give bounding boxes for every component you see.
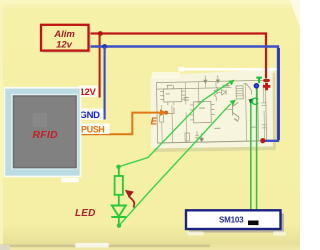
diode D1 [219, 89, 227, 95]
red arrow head [125, 190, 134, 198]
arrowhead B [230, 100, 236, 106]
green junction dot [249, 99, 253, 103]
RFID inner light line [11, 94, 78, 170]
white streak bottom left [75, 243, 109, 248]
white patch top of paper [152, 72, 180, 78]
capacitor C3 [195, 131, 199, 142]
svg-text:SM103: SM103 [219, 215, 244, 224]
blue wire from Alim around right [89, 47, 278, 141]
blue wire down to GND [103, 47, 105, 120]
label REL [222, 85, 229, 87]
schematic paper [151, 70, 274, 149]
GND label chip [79, 109, 104, 121]
SM103 black mark [248, 221, 259, 226]
orange arrowhead [160, 109, 167, 116]
tiny text smudges [165, 84, 257, 130]
white streak below SM103 right [273, 232, 286, 236]
Alim 12v box [41, 25, 89, 51]
white streak below RFID [61, 178, 79, 183]
relay K1 coil [236, 86, 243, 99]
red dot terminal minus [260, 138, 265, 143]
IC U1 pins [160, 85, 185, 106]
orange wire PUSH to E [80, 113, 161, 135]
transistor base wire [226, 109, 232, 111]
LED branch: top node [116, 165, 120, 169]
svg-text:E: E [151, 117, 158, 128]
circuit border [156, 80, 266, 143]
Alim 12v box shadow [43, 27, 91, 53]
red wire down to 12V [99, 34, 101, 98]
relay contact [243, 84, 251, 95]
svg-text:12V: 12V [80, 87, 97, 98]
green wire arrow A to relay [119, 82, 232, 167]
arrowhead A [228, 80, 234, 86]
RFID cyan frame [5, 89, 80, 176]
left edge light band [0, 0, 3, 250]
RFID gray panel [13, 95, 77, 168]
right verticals [245, 83, 264, 141]
LED cathode bar [111, 216, 126, 218]
blue junction node [102, 44, 107, 49]
resistor R1 left [160, 113, 164, 122]
resistor R4 bottom [185, 133, 190, 141]
wire node to resistor [118, 167, 120, 176]
schematic paper shadow [154, 73, 276, 152]
T label [256, 78, 262, 83]
PUSH label chip [79, 124, 110, 135]
white blob left end [179, 67, 184, 72]
RFID outer white edge [4, 87, 82, 178]
top rail [157, 88, 232, 90]
ground symbol [199, 133, 203, 142]
RFID panel inner shade [14, 96, 76, 167]
green vertical wire to SM103 left [250, 101, 252, 211]
wire LED to bottom node [118, 217, 120, 226]
white streak above schematic [180, 68, 278, 71]
capacitor C1 [184, 97, 189, 100]
orange tip circle [164, 111, 168, 115]
green vertical wire to SM103 right [256, 88, 258, 210]
transistor Q1 [232, 102, 238, 120]
svg-text:GND: GND [80, 110, 101, 121]
down arrow symbol [204, 75, 220, 83]
red terminal bar [263, 79, 270, 82]
wire top center [198, 82, 216, 104]
SM103 box shadow [189, 214, 284, 233]
svg-text:12v: 12v [56, 40, 73, 51]
IC U2 [193, 101, 211, 122]
IC U2 pins [190, 104, 215, 120]
bottom node [117, 223, 121, 227]
wire resistor to LED [118, 195, 120, 205]
svg-text:Alim: Alim [53, 29, 75, 40]
+ symbol [263, 83, 270, 90]
wire E input [166, 107, 174, 113]
red junction node [98, 31, 103, 36]
svg-text:C: C [251, 96, 259, 108]
resistor R-led [115, 176, 123, 195]
blue right edge thick [278, 48, 280, 140]
red wire from Alim to + [89, 34, 266, 79]
bottom-left corner smudge [0, 245, 10, 250]
red curved annotation arrow at LED [129, 196, 135, 208]
svg-text:LED: LED [75, 208, 96, 219]
SM103 box [186, 210, 281, 229]
RFID faint logo patch [33, 113, 48, 127]
relay hatch [236, 88, 243, 96]
schematic inner drawing (faint) [156, 74, 267, 143]
svg-text:PUSH: PUSH [81, 124, 104, 134]
green wire arrow B to transistor [119, 104, 231, 226]
IC U1 [164, 89, 182, 102]
label BD135 [234, 118, 238, 121]
12V label chip [79, 86, 99, 98]
LED D1 triangle [112, 206, 126, 217]
bottom olive streak [0, 245, 210, 248]
blue node circle [254, 83, 260, 89]
capacitor C4 right [261, 103, 267, 128]
white streak below SM103 left [187, 232, 204, 236]
vertical wires left [161, 83, 187, 143]
bottom rail [158, 141, 267, 143]
svg-text:RFID: RFID [33, 129, 59, 141]
top right white corner [290, 0, 300, 28]
resistor R2 zigzag [214, 87, 218, 101]
